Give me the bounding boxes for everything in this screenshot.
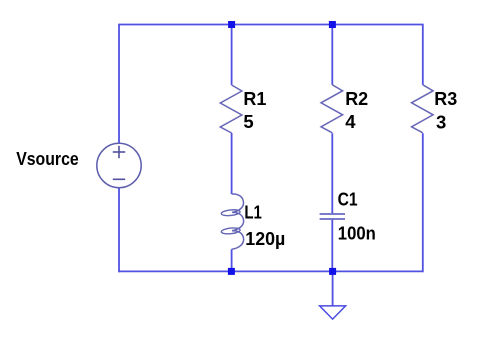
wire L1 to bottom rail (231, 249, 233, 271)
resistor R3 body (412, 85, 434, 133)
wire R2 to C1 (331, 133, 333, 214)
svg-text:100n: 100n (338, 222, 376, 243)
svg-text:5: 5 (243, 111, 253, 132)
svg-text:R1: R1 (243, 88, 266, 109)
ground symbol (320, 306, 346, 319)
junction node bottom-C1/ground (329, 268, 336, 275)
wire bottom (ground net) (119, 270, 423, 272)
voltage source minus sign (113, 178, 125, 180)
svg-text:Vsource: Vsource (16, 148, 78, 169)
junction node bottom-L1 (228, 268, 235, 275)
resistor R2 body (321, 85, 343, 133)
wire left upper (top rail to Vsource +) (118, 24, 120, 144)
resistor R1 body (220, 85, 242, 133)
voltage source plus sign (113, 151, 125, 153)
wire right upper (top rail to R3) (422, 24, 424, 85)
voltage source V1 circle (97, 143, 141, 187)
wire R1 column top (231, 25, 233, 86)
svg-text:R3: R3 (434, 88, 457, 109)
wire right lower (R3 to bottom rail) (422, 133, 424, 272)
wire R1 to L1 (231, 133, 233, 194)
wire top (node N001) (119, 24, 423, 26)
svg-text:R2: R2 (345, 88, 368, 109)
svg-text:C1: C1 (338, 189, 358, 210)
capacitor C1 top plate (320, 213, 345, 215)
svg-text:4: 4 (345, 111, 356, 132)
wire left lower (Vsource - to bottom rail) (118, 188, 120, 273)
junction node top-R1 (228, 21, 235, 28)
wire C1 to bottom rail (331, 219, 333, 271)
inductor L1 left leaf loop 2 (221, 227, 240, 235)
svg-text:3: 3 (436, 112, 446, 133)
capacitor C1 bottom plate (320, 218, 345, 220)
wire ground stem (332, 271, 334, 306)
junction node top-R2 (329, 21, 336, 28)
wire R2 column top (331, 25, 333, 85)
svg-text:120µ: 120µ (245, 228, 285, 249)
inductor L1 left leaf loop 1 (221, 209, 240, 217)
inductor L1 body: three right-bulging turns (232, 194, 244, 249)
svg-text:L1: L1 (244, 201, 262, 222)
